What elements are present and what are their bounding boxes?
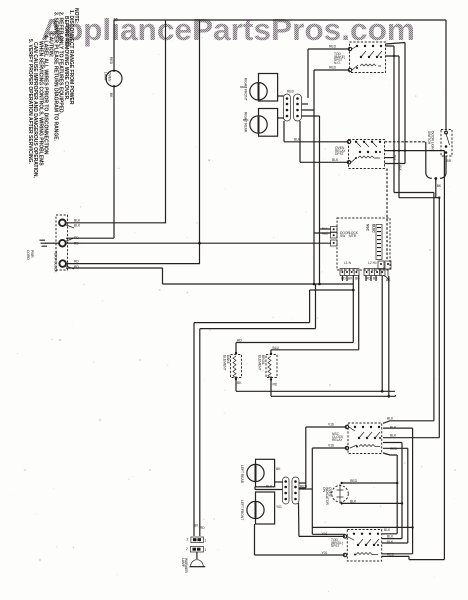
svg-text:RED: RED — [322, 232, 329, 236]
svg-text:L1 N: L1 N — [344, 261, 352, 265]
svg-text:BLU: BLU — [273, 346, 280, 350]
svg-text:V16: V16 — [328, 444, 334, 448]
svg-text:RD: RD — [74, 242, 79, 246]
svg-text:RIGHT REAR: RIGHT REAR — [244, 112, 248, 133]
svg-text:SWITCH: SWITCH — [427, 131, 431, 145]
svg-text:BLK: BLK — [332, 158, 339, 162]
svg-text:RD: RD — [341, 277, 346, 281]
svg-text:RED: RED — [109, 57, 113, 65]
svg-text:BLK: BLK — [350, 499, 357, 503]
svg-text:N.O.: N.O. — [334, 61, 341, 65]
svg-text:DPST: DPST — [335, 152, 344, 156]
svg-text:BLK: BLK — [393, 155, 397, 161]
svg-text:NSC: NSC — [366, 224, 370, 232]
svg-text:RD: RD — [74, 236, 79, 240]
svg-text:ELEMENT: ELEMENT — [223, 355, 227, 371]
svg-text:BLK: BLK — [322, 227, 328, 231]
svg-text:1: 1 — [205, 539, 207, 543]
svg-text:RD: RD — [74, 260, 79, 264]
svg-text:ON: ON — [322, 487, 326, 493]
svg-text:Y01: Y01 — [276, 505, 282, 509]
svg-text:BLK: BLK — [74, 224, 81, 228]
svg-text:BU: BU — [355, 277, 360, 281]
svg-text:L2 H1: L2 H1 — [368, 261, 377, 265]
svg-text:BLK: BLK — [294, 138, 301, 142]
svg-text:RD: RD — [273, 383, 278, 387]
svg-text:LEFT FRONT: LEFT FRONT — [240, 500, 244, 520]
svg-text:SPST: SPST — [331, 544, 340, 548]
svg-text:2: 2 — [187, 538, 189, 542]
svg-text:BLK: BLK — [387, 535, 394, 539]
svg-text:BLK: BLK — [387, 417, 394, 421]
svg-text:TERM BLOCK: TERM BLOCK — [54, 251, 58, 273]
svg-text:LEFT REAR: LEFT REAR — [240, 465, 244, 484]
svg-text:BLK: BLK — [266, 485, 273, 489]
svg-text:MTR: MTR — [349, 234, 357, 238]
svg-text:RED: RED — [390, 447, 398, 451]
svg-text:RED: RED — [287, 90, 295, 94]
svg-text:BR: BR — [447, 159, 452, 163]
svg-text:Y01: Y01 — [322, 532, 328, 536]
svg-text:RED: RED — [350, 479, 358, 483]
svg-text:Y01: Y01 — [322, 551, 328, 555]
svg-text:BLK: BLK — [390, 426, 397, 430]
svg-text:RED: RED — [329, 66, 337, 70]
svg-text:3. SERVICER PLEASE RETURN DIAG: 3. SERVICER PLEASE RETURN DIAGRAM TO RAN… — [53, 12, 59, 142]
svg-text:BLK: BLK — [384, 528, 391, 532]
svg-text:BLK: BLK — [387, 540, 394, 544]
svg-text:RED: RED — [387, 553, 395, 557]
svg-text:V16: V16 — [328, 423, 334, 427]
svg-text:RD: RD — [74, 265, 79, 269]
svg-text:BLK: BLK — [390, 434, 397, 438]
svg-text:RED: RED — [240, 85, 247, 89]
svg-text:5. VERIFY PROPER OPERATION AFT: 5. VERIFY PROPER OPERATION AFTER SERVICI… — [27, 39, 33, 164]
svg-text:1: 1 — [205, 548, 207, 552]
svg-text:RD: RD — [237, 339, 242, 343]
svg-text:SW: SW — [340, 234, 346, 238]
svg-text:CORD: CORD — [26, 250, 30, 260]
svg-text:RIGHT FRONT: RIGHT FRONT — [244, 78, 248, 100]
svg-text:ELEMENT: ELEMENT — [258, 355, 262, 371]
svg-text:ELEC: ELEC — [372, 224, 376, 233]
svg-text:LAMP: LAMP — [181, 558, 185, 568]
svg-text:RD: RD — [200, 526, 205, 530]
svg-text:LAMP: LAMP — [104, 72, 108, 82]
svg-text:BLK: BLK — [74, 219, 81, 223]
svg-text:RED: RED — [300, 485, 308, 489]
svg-text:RED: RED — [329, 45, 337, 49]
svg-text:BLK: BLK — [243, 118, 249, 122]
svg-text:RELAY: RELAY — [332, 438, 343, 442]
svg-text:BLK: BLK — [399, 165, 403, 171]
svg-text:RD: RD — [366, 277, 371, 281]
svg-text:2: 2 — [186, 547, 188, 551]
